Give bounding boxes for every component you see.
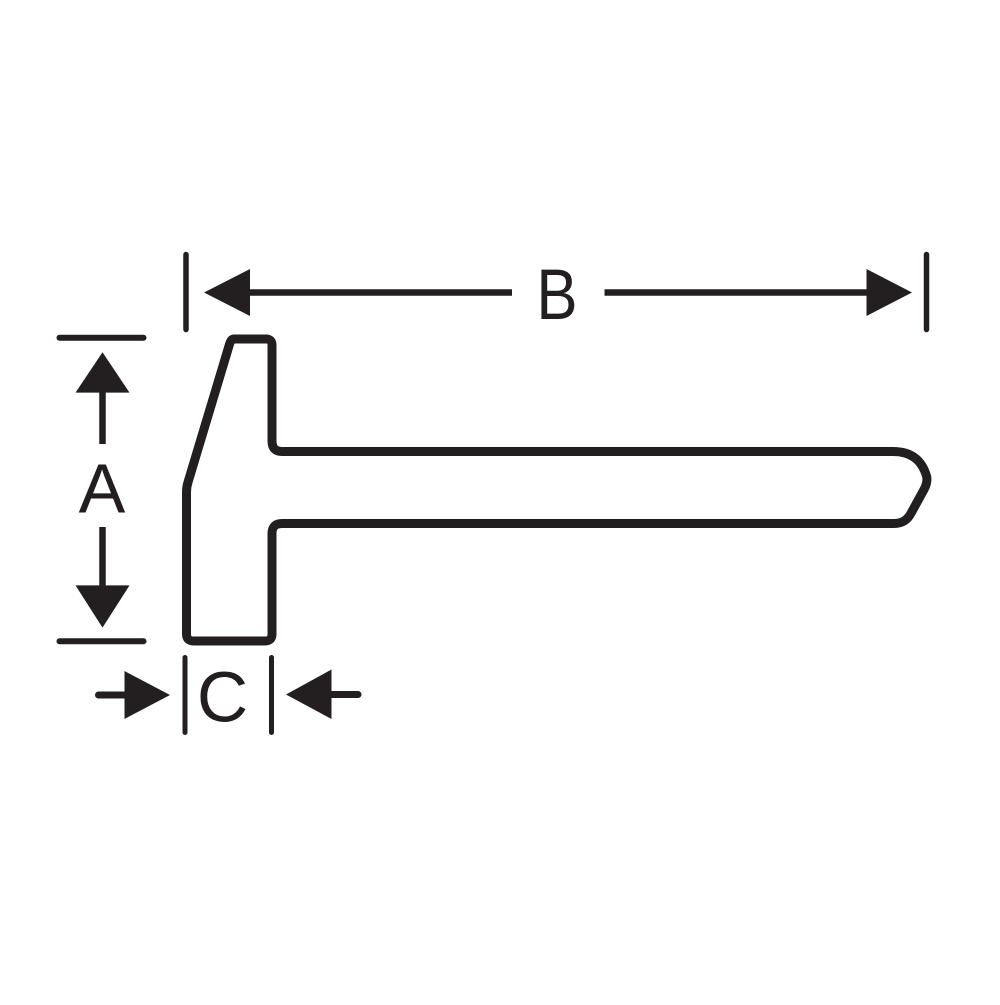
dimension B right tick [924, 255, 930, 330]
svg-text:C: C [197, 659, 248, 738]
dimension A lower stem [99, 527, 106, 586]
dimension C left arrowhead [125, 671, 171, 719]
dimension C left tick [183, 658, 188, 733]
dimension B left arrowhead [204, 269, 250, 316]
svg-text:A: A [79, 450, 126, 528]
dimension C right stem [332, 691, 358, 698]
dimension C right arrowhead [286, 670, 332, 720]
dimension A up arrowhead [76, 352, 130, 392]
dimension C left stem [99, 692, 127, 699]
dimension B line left segment [248, 289, 512, 296]
hammer outline [187, 339, 927, 641]
dimension A top tick [60, 335, 144, 341]
dimension B left tick [183, 255, 189, 330]
dimension A down arrowhead [76, 585, 130, 627]
dimension B right arrowhead [867, 269, 913, 316]
dimension C right tick [269, 658, 274, 733]
dimension B line right segment [605, 289, 869, 296]
dimension A upper stem [99, 391, 106, 444]
svg-text:B: B [536, 256, 577, 335]
dimension A bottom tick [60, 638, 144, 644]
